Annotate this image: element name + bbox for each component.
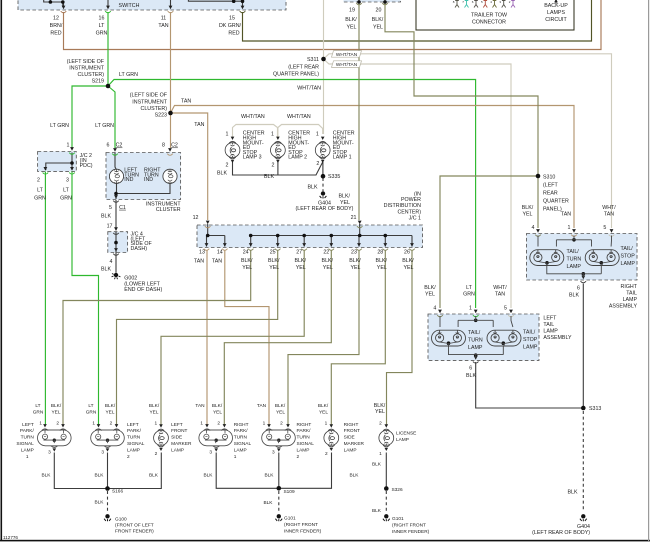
license lamp ground wire (385, 453, 387, 489)
wire TAN J/C1 pin14 to right park lamp2 (225, 250, 269, 425)
left park1 pin1 term (42, 424, 49, 430)
svg-text:1: 1 (92, 421, 95, 427)
svg-text:CENTER): CENTER) (397, 209, 421, 215)
svg-text:BLK: BLK (567, 489, 577, 495)
svg-text:27: 27 (296, 250, 302, 256)
svg-text:BLK/: BLK/ (275, 403, 286, 409)
svg-text:YEL: YEL (375, 409, 385, 415)
svg-text:15: 15 (229, 16, 235, 22)
svg-text:2: 2 (37, 177, 40, 183)
svg-text:BLK/: BLK/ (149, 403, 160, 409)
wire TAN S223 to J/C1 pin12 (171, 113, 208, 220)
svg-text:BLK/: BLK/ (424, 285, 436, 291)
J/C1 bus dots (206, 234, 210, 238)
J/C4 pin 4 (113, 248, 119, 255)
svg-text:YEL: YEL (296, 265, 306, 271)
svg-text:LAMP: LAMP (21, 447, 34, 453)
svg-text:BLK/: BLK/ (372, 17, 384, 23)
svg-text:23: 23 (351, 250, 357, 256)
left tail internal dots (474, 319, 478, 323)
left park lamps ground bus (54, 453, 161, 489)
S335 to G404 lead (322, 178, 324, 191)
svg-text:TAN: TAN (257, 403, 267, 409)
svg-text:BLK/: BLK/ (318, 403, 329, 409)
left tail pin 4 (437, 310, 443, 317)
svg-text:(LEFT SIDE OF: (LEFT SIDE OF (130, 93, 168, 99)
cluster pin 5 (113, 195, 119, 202)
trailer pin g (511, 1, 515, 8)
svg-text:2: 2 (297, 454, 300, 460)
J/C2 pin 3 (69, 167, 75, 174)
svg-text:26: 26 (404, 250, 410, 256)
svg-text:YEL: YEL (323, 265, 333, 271)
svg-text:YEL: YEL (425, 292, 435, 298)
left park/turn lamp 1 (38, 430, 72, 446)
wire BLK/YEL J/C1 pin28 to right marker pin1 (331, 250, 385, 425)
svg-text:IND: IND (124, 177, 133, 183)
svg-text:BACK-UP: BACK-UP (544, 3, 568, 9)
svg-text:BLK/: BLK/ (294, 258, 306, 264)
cluster pin5 to J/C4 (115, 200, 117, 230)
svg-text:LEFT: LEFT (543, 315, 557, 321)
svg-text:S310: S310 (543, 175, 555, 181)
svg-text:2: 2 (217, 421, 220, 427)
svg-text:TRAILER TOW: TRAILER TOW (471, 13, 507, 19)
svg-text:RED: RED (228, 31, 239, 37)
splice S326 (384, 486, 389, 491)
left park1 pin2 term (60, 424, 67, 430)
svg-text:LAMP: LAMP (543, 328, 558, 334)
svg-text:STOP: STOP (621, 253, 636, 259)
svg-text:BLK/: BLK/ (241, 258, 253, 264)
wire WHT/TAN CHMSL chain lamp3-lamp2 (233, 125, 278, 139)
svg-text:LAMPS: LAMPS (547, 10, 565, 16)
svg-text:INNER FENDER): INNER FENDER) (284, 528, 322, 534)
svg-text:BLK/: BLK/ (212, 403, 223, 409)
svg-text:LICENSE: LICENSE (396, 431, 416, 437)
svg-text:WHT/TAN: WHT/TAN (241, 114, 265, 120)
svg-text:LT: LT (88, 403, 93, 409)
left tail bulb 2 (487, 330, 521, 346)
J/C1 pin 22 (329, 243, 335, 250)
svg-text:YEL: YEL (52, 410, 61, 416)
svg-text:2: 2 (226, 163, 229, 169)
svg-text:QUARTER: QUARTER (543, 199, 569, 205)
chmsl lamp3 pin2 term (229, 157, 236, 163)
right marker pin2 term (328, 445, 335, 451)
svg-text:FRONT: FRONT (171, 428, 187, 434)
svg-text:FRONT: FRONT (344, 428, 360, 434)
svg-text:28: 28 (377, 250, 383, 256)
svg-text:S219: S219 (92, 79, 104, 85)
cluster pin 8 (167, 148, 173, 155)
svg-text:LAMP: LAMP (621, 261, 636, 267)
svg-text:LAMP: LAMP (623, 297, 638, 303)
svg-text:6: 6 (107, 143, 110, 149)
svg-text:11: 11 (161, 16, 167, 22)
svg-text:ASSEMBLY: ASSEMBLY (609, 303, 638, 309)
svg-text:BLK: BLK (217, 171, 227, 177)
svg-text:1: 1 (234, 454, 237, 460)
svg-text:WHT/TAN: WHT/TAN (336, 62, 358, 68)
svg-text:WHT/TAN: WHT/TAN (336, 52, 358, 58)
svg-text:LAMP: LAMP (234, 447, 247, 453)
svg-text:1: 1 (39, 421, 42, 427)
svg-text:SIGNAL: SIGNAL (16, 441, 34, 447)
svg-text:LEFT: LEFT (22, 422, 34, 428)
svg-text:LT: LT (37, 188, 44, 194)
J/C1 pin 14 (222, 243, 228, 250)
svg-text:22: 22 (323, 250, 329, 256)
svg-text:YEL: YEL (373, 25, 383, 31)
wire WHT/TAN from top to S311 (323, 0, 325, 59)
left park/turn lamp 2 (91, 430, 125, 446)
svg-text:TAN: TAN (212, 259, 222, 265)
trailer pin f (502, 1, 506, 8)
svg-text:LT: LT (99, 23, 106, 29)
svg-text:YEL: YEL (377, 265, 387, 271)
J/C1 pin 12 (205, 221, 211, 228)
svg-text:CONNECTOR: CONNECTOR (472, 20, 506, 26)
svg-text:4: 4 (433, 306, 436, 312)
svg-text:1: 1 (379, 451, 382, 457)
svg-text:25: 25 (270, 250, 276, 256)
svg-text:ASSEMBLY: ASSEMBLY (543, 335, 572, 341)
chmsl lamp1 pin1 term (319, 137, 326, 143)
svg-text:1: 1 (568, 225, 571, 231)
svg-text:C2: C2 (116, 143, 123, 149)
svg-text:LT GRN: LT GRN (119, 72, 138, 78)
trailer pin c (474, 1, 478, 8)
svg-text:WHT/: WHT/ (602, 205, 616, 211)
chmsl lamp2 pin2 term (275, 157, 282, 163)
svg-text:1: 1 (26, 454, 29, 460)
svg-text:MARKER: MARKER (344, 441, 365, 447)
right tail pin 1 (571, 229, 577, 236)
svg-text:BLK: BLK (569, 293, 579, 299)
trailer pin e (493, 1, 497, 8)
svg-text:BLK: BLK (264, 500, 274, 506)
splice S219 (106, 84, 111, 89)
svg-text:1: 1 (67, 143, 70, 149)
wire BRN/RED pin12 to top right wrap (64, 0, 602, 50)
J/C4 internal dot (114, 241, 118, 245)
svg-text:1: 1 (271, 132, 274, 138)
svg-text:INSTRUMENT: INSTRUMENT (69, 66, 104, 72)
svg-text:LT GRN: LT GRN (50, 123, 69, 129)
svg-text:SIGNAL: SIGNAL (297, 441, 315, 447)
svg-text:RIGHT: RIGHT (344, 422, 359, 428)
svg-text:5: 5 (504, 306, 507, 312)
left tail pin 6 (473, 356, 479, 363)
switch pin 11 (168, 6, 174, 13)
J/C1 internal BLK/YEL bus (251, 224, 412, 247)
license pin2 term (383, 424, 390, 430)
svg-text:YEL: YEL (213, 410, 222, 416)
right park lamps ground bus (216, 453, 331, 489)
left park2 pin1 term (95, 424, 102, 430)
svg-text:BLK/: BLK/ (349, 258, 361, 264)
wire BLK/YEL switch pin20 to S310 (385, 3, 538, 176)
right park/turn lamp 1 (199, 430, 233, 446)
J/C1 pin 25 (275, 243, 281, 250)
svg-text:(RIGHT FRONT: (RIGHT FRONT (392, 523, 426, 529)
left tail bulb 1 (432, 330, 466, 346)
J/C1 pin 13 (204, 243, 210, 250)
wire LT GRN S219 to cluster pin6 (108, 86, 115, 148)
svg-text:GRN: GRN (33, 410, 44, 416)
page border bottom (0, 540, 650, 542)
svg-text:1: 1 (200, 421, 203, 427)
svg-text:LEFT: LEFT (127, 422, 139, 428)
svg-text:YEL: YEL (346, 25, 356, 31)
left park2 pin2 term (113, 424, 120, 430)
svg-text:GRN: GRN (34, 195, 46, 201)
svg-text:C1: C1 (119, 205, 126, 211)
svg-text:CIRCUIT: CIRCUIT (545, 17, 567, 23)
left tail pin6 to S313 (476, 362, 584, 408)
right front side marker lamp (324, 431, 339, 446)
svg-text:YEL: YEL (276, 410, 285, 416)
wire BLK/YEL S310 to right tail pin4 (537, 176, 539, 228)
svg-text:YEL: YEL (319, 410, 328, 416)
svg-text:LAMP: LAMP (171, 447, 184, 453)
svg-text:14: 14 (217, 250, 223, 256)
svg-text:S109: S109 (284, 489, 295, 495)
svg-text:1: 1 (226, 132, 229, 138)
ground G404 (left rear of body, lower) (580, 514, 587, 521)
right tail internal wiring (538, 236, 612, 278)
svg-text:BLK: BLK (95, 500, 105, 506)
svg-text:CLUSTER): CLUSTER) (78, 72, 105, 78)
svg-text:BLK/: BLK/ (105, 403, 116, 409)
J/C 4 box (108, 232, 128, 253)
svg-text:BLK/: BLK/ (376, 258, 388, 264)
svg-text:C2: C2 (171, 143, 178, 149)
svg-text:TAN: TAN (604, 212, 614, 218)
svg-text:16: 16 (99, 16, 105, 22)
svg-text:YEL: YEL (106, 410, 115, 416)
svg-text:YEL: YEL (269, 265, 279, 271)
svg-text:TAIL: TAIL (626, 290, 637, 296)
switch pin 20 cup (382, 3, 388, 5)
wire LT GRN S219 to left tail pin1 (108, 80, 476, 309)
right tail pin6 to S313 (582, 284, 584, 409)
wire BLK/YEL J/C1 pin24 to left park lamp1 pin2 (63, 250, 251, 425)
svg-text:YEL: YEL (340, 200, 350, 206)
svg-text:TAN: TAN (158, 23, 168, 29)
J/C4 to G002 (115, 253, 117, 273)
svg-text:3: 3 (209, 449, 212, 455)
wire TAN pin11 to S223 (170, 12, 172, 113)
hazard pins box (344, 0, 401, 2)
J/C1 pin 27 (301, 243, 307, 250)
wire TAN S223 to right tail pin1 (171, 106, 575, 229)
svg-text:TURN: TURN (468, 338, 483, 344)
S109 to G101 lead (278, 491, 280, 512)
svg-text:TURN: TURN (127, 435, 141, 441)
svg-text:DASH): DASH) (131, 246, 148, 252)
svg-text:8: 8 (162, 143, 165, 149)
svg-text:WHT/TAN: WHT/TAN (297, 86, 321, 92)
svg-text:FRONT FENDER): FRONT FENDER) (115, 529, 154, 535)
svg-text:LAMP 2: LAMP 2 (288, 155, 307, 161)
left park2 pin3 term (104, 446, 111, 452)
svg-text:2: 2 (56, 421, 59, 427)
svg-text:PARK/: PARK/ (127, 428, 142, 434)
svg-text:5: 5 (603, 225, 606, 231)
svg-text:LAMP: LAMP (567, 264, 582, 270)
right park2 pin2 term (285, 424, 292, 430)
license lamp (379, 431, 394, 446)
svg-text:J/C 1: J/C 1 (409, 216, 421, 222)
svg-text:BLK/: BLK/ (374, 403, 386, 409)
svg-text:S166: S166 (112, 488, 123, 494)
svg-text:3: 3 (48, 449, 51, 455)
svg-text:REAR: REAR (543, 191, 558, 197)
svg-text:TAN: TAN (561, 212, 571, 218)
instrument cluster box (106, 153, 181, 200)
svg-text:GRN: GRN (60, 195, 72, 201)
svg-text:4: 4 (110, 259, 113, 265)
svg-text:BLK/: BLK/ (339, 194, 351, 200)
svg-text:5: 5 (109, 205, 112, 211)
svg-text:1: 1 (469, 306, 472, 312)
svg-text:S326: S326 (392, 487, 403, 493)
svg-text:PARK/: PARK/ (297, 428, 312, 434)
park lamp internal dots (53, 439, 56, 442)
svg-text:BLK: BLK (101, 267, 111, 273)
wire WHT/TAN S311 to CHMSL lamp1 (323, 59, 325, 134)
J/C2 internal wires (46, 153, 72, 171)
right park2 pin3 term (276, 446, 283, 452)
wire BLK/YEL J/C1 pin23 to right park lamp2 pin2 (288, 250, 359, 425)
svg-text:3: 3 (66, 177, 69, 183)
ground G404 (left rear of body, upper) (320, 191, 327, 198)
cluster left turn ind bulb (109, 169, 123, 183)
right tail internal dots (572, 238, 576, 242)
svg-text:END OF DASH): END OF DASH) (124, 287, 162, 293)
J/C1 pin 23 (356, 243, 362, 250)
svg-text:PARK/: PARK/ (20, 428, 35, 434)
svg-text:12: 12 (193, 215, 199, 221)
svg-text:BLK: BLK (265, 472, 275, 478)
wire BLK/YEL J/C1 pin22 to right park lamp1 pin2 (224, 250, 331, 425)
trailer pin b (465, 1, 469, 8)
svg-text:24: 24 (243, 250, 249, 256)
left tail internal wiring (440, 316, 513, 358)
svg-text:112776: 112776 (3, 535, 18, 540)
S166 to G100 lead (107, 491, 109, 512)
svg-text:BLK/: BLK/ (522, 205, 534, 211)
svg-text:S313: S313 (589, 406, 601, 412)
CHMSL ground bus (233, 160, 323, 176)
right tail pin 6 (581, 276, 587, 283)
J/C4 pin 17 (113, 227, 119, 234)
svg-text:YEL: YEL (350, 265, 360, 271)
chmsl lamp2 pin1 term (275, 137, 282, 143)
splice S311 (321, 57, 326, 62)
svg-text:CLUSTER): CLUSTER) (141, 106, 168, 112)
ground G101 (license) (383, 514, 390, 521)
svg-text:WHT/: WHT/ (493, 285, 507, 291)
backup lamps arrow (555, 2, 557, 5)
right tail bulb 2 (585, 250, 619, 266)
svg-text:PANEL): PANEL) (543, 207, 562, 213)
cluster internal dot (114, 192, 118, 196)
svg-text:LT: LT (35, 403, 40, 409)
svg-text:BLK: BLK (350, 472, 360, 478)
svg-text:RIGHT: RIGHT (234, 422, 249, 428)
left tail pin 1 (473, 310, 479, 317)
svg-text:(LEFT REAR OF BODY): (LEFT REAR OF BODY) (532, 530, 590, 536)
svg-text:TAIL: TAIL (543, 322, 554, 328)
splice S166 (105, 486, 110, 491)
wire TAN J/C1 pin13 to right park lamp1 (206, 250, 208, 425)
left tail lamp assembly box (428, 314, 539, 360)
svg-text:DK GRN/: DK GRN/ (219, 23, 242, 29)
svg-text:LAMP: LAMP (127, 447, 140, 453)
wire BLK/YEL S310 to left tail pin4 (440, 176, 538, 308)
svg-text:S223: S223 (155, 113, 167, 119)
wire DK GRN/RED pin15 wrap (243, 0, 592, 41)
svg-text:G404: G404 (577, 524, 590, 530)
switch pin 16 (105, 6, 111, 13)
svg-text:LAMP: LAMP (344, 447, 357, 453)
wire WHT/TAN S311 to left tail pin5 (324, 59, 512, 308)
wire TAN S223 to cluster pin8 (170, 113, 172, 148)
svg-text:LEFT: LEFT (171, 422, 183, 428)
splice S335 (321, 174, 326, 179)
svg-text:BLK/: BLK/ (345, 17, 357, 23)
svg-text:17: 17 (107, 223, 113, 229)
chmsl lamp3 pin1 term (229, 137, 236, 143)
page border left (1, 0, 3, 541)
svg-text:G100: G100 (115, 516, 127, 522)
svg-text:SIDE: SIDE (344, 435, 355, 441)
svg-text:BLK: BLK (149, 472, 159, 478)
svg-text:PARK/: PARK/ (234, 428, 249, 434)
svg-text:TAN: TAN (194, 122, 204, 128)
ground G002 (112, 273, 121, 279)
svg-text:SWITCH: SWITCH (119, 3, 140, 9)
svg-text:BLK: BLK (307, 184, 317, 190)
svg-text:TURN: TURN (297, 435, 311, 441)
chmsl lamp1 pin2 term (319, 157, 326, 163)
switch pin 19 cup (356, 3, 362, 5)
right marker pin1 term (328, 424, 335, 430)
frame WHT/TAN lower (332, 61, 362, 68)
splice S313 (581, 406, 586, 411)
svg-text:G101: G101 (284, 515, 296, 521)
svg-text:LAMP: LAMP (468, 345, 483, 351)
svg-text:TAIL/: TAIL/ (523, 330, 536, 336)
svg-text:LAMP: LAMP (396, 437, 409, 443)
svg-text:BRN/: BRN/ (50, 23, 63, 29)
switch internal dots (49, 0, 53, 4)
svg-text:TAN: TAN (495, 292, 505, 298)
svg-text:(LEFT REAR: (LEFT REAR (288, 65, 319, 71)
svg-text:BLK/: BLK/ (51, 403, 62, 409)
right tail pin 4 (535, 229, 541, 236)
svg-text:S335: S335 (328, 174, 340, 180)
trailer pin d (483, 1, 487, 8)
chmsl lamp 3 (225, 143, 240, 158)
svg-text:2: 2 (155, 451, 158, 457)
trailer pin a (455, 1, 459, 8)
svg-text:(LEFT SIDE OF: (LEFT SIDE OF (67, 59, 105, 65)
left tail pin 5 (508, 310, 514, 317)
